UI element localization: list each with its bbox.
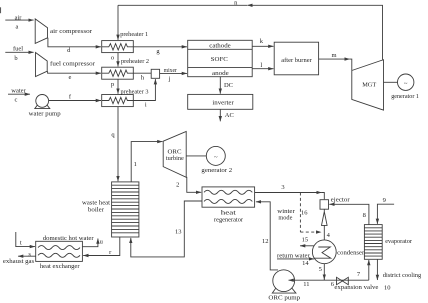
fuel-cell SOFC stack (188, 40, 253, 76)
svg-text:o: o (111, 55, 114, 62)
svg-text:a: a (16, 23, 19, 30)
svg-text:evaporator: evaporator (385, 238, 413, 245)
wire 8: evaporator to ejector (329, 204, 369, 224)
svg-text:cathode: cathode (209, 43, 231, 50)
svg-text:inverter: inverter (212, 100, 234, 107)
wire fuel inlet (5, 51, 33, 53)
svg-text:turbine: turbine (166, 155, 184, 162)
wire air inlet (5, 19, 33, 21)
svg-text:heat exchanger: heat exchanger (40, 263, 81, 270)
svg-text:SOFC: SOFC (211, 56, 228, 63)
wire 12: ORC pump to regenerator (256, 202, 278, 270)
wire n: MGT exhaust to preheater 1 (252, 5, 383, 59)
svg-text:exhaust gas: exhaust gas (3, 258, 35, 265)
svg-text:c: c (15, 97, 18, 104)
heat-exchanger domestic heat exchanger (36, 241, 83, 261)
wire t: cold water inlet (16, 232, 35, 247)
ejector (320, 200, 329, 210)
generator generator 1 (384, 81, 398, 83)
svg-text:1: 1 (134, 161, 137, 168)
compressor air compressor (35, 19, 47, 44)
svg-text:air compressor: air compressor (50, 28, 93, 35)
inverter (188, 94, 253, 109)
svg-text:domestic hot water: domestic hot water (43, 235, 95, 242)
pump ORC pump (272, 286, 296, 293)
svg-text:generator 2: generator 2 (201, 167, 232, 174)
svg-text:3: 3 (281, 184, 284, 191)
heat-exchanger preheater 3 (102, 95, 134, 107)
wire g: preheater 1 to SOFC cathode (133, 46, 187, 48)
svg-text:MGT: MGT (362, 82, 376, 89)
evaporator (364, 225, 382, 260)
wire 1: boiler to ORC turbine (131, 142, 162, 182)
svg-text:p: p (111, 81, 114, 88)
wire l: anode to after burner (252, 68, 273, 70)
svg-text:condenser: condenser (337, 250, 365, 257)
condenser (312, 240, 336, 264)
wire k: cathode to after burner (252, 45, 273, 47)
svg-text:AC: AC (225, 112, 234, 119)
svg-text:anode: anode (212, 70, 229, 77)
valve expansion valve (337, 277, 343, 284)
wire 2: ORC turbine to heat regenerator (187, 177, 202, 192)
svg-text:mixer: mixer (164, 67, 178, 74)
wire m: after burner to MGT (319, 58, 350, 60)
wire 13: regenerator to boiler bottom (131, 201, 202, 257)
svg-text:12: 12 (262, 238, 269, 245)
wire exhaust gas outlet (18, 255, 36, 257)
wire p: preheater 2 to preheater 3 (117, 79, 119, 94)
wire 15: condenser return water out (300, 245, 314, 247)
heat-exchanger preheater 2 (102, 67, 134, 79)
svg-text:10: 10 (384, 285, 391, 292)
svg-text:l: l (260, 62, 262, 69)
svg-text:15: 15 (302, 237, 309, 244)
wire r: boiler to heat exchanger (83, 237, 120, 256)
svg-text:14: 14 (302, 260, 309, 267)
wire n into preheater 1 top (117, 5, 119, 40)
svg-text:after burner: after burner (281, 57, 312, 64)
wire 5: condenser to pump line (323, 264, 325, 280)
wire i: preheater 3 to mixer bottom (133, 79, 155, 100)
mixer (151, 69, 159, 78)
wire water inlet (8, 93, 30, 95)
wire e: fuel compressor to preheater 2 (48, 71, 101, 73)
svg-text:ORC pump: ORC pump (268, 295, 300, 302)
wire 9: district cooling inlet (377, 204, 394, 224)
svg-text:preheater 2: preheater 2 (121, 58, 149, 65)
svg-text:boiler: boiler (88, 207, 105, 214)
wire o: preheater 1 to preheater 2 (117, 53, 119, 67)
pump water pump (35, 104, 50, 108)
svg-text:generator 1: generator 1 (391, 93, 419, 100)
wire 11: suction line into ORC pump (289, 279, 369, 281)
wire 7: valve line up into evaporator (368, 260, 370, 280)
svg-text:return water: return water (277, 252, 311, 259)
svg-text:13: 13 (175, 228, 182, 235)
wire 10: district cooling outlet (376, 259, 378, 280)
wire 4: ejector to condenser (323, 225, 325, 239)
svg-text:b: b (14, 55, 17, 62)
svg-text:~: ~ (404, 80, 408, 87)
svg-text:16: 16 (301, 209, 308, 216)
wire h: preheater 2 to mixer (133, 72, 151, 74)
svg-text:e: e (69, 74, 72, 81)
svg-text:fuel compressor: fuel compressor (50, 61, 96, 68)
generator generator 2 (186, 155, 206, 157)
turbine MGT (352, 60, 384, 110)
svg-text:district cooling: district cooling (383, 272, 422, 279)
svg-text:mode: mode (278, 215, 292, 222)
heat-exchanger preheater 1 (102, 41, 134, 53)
svg-text:j: j (168, 76, 171, 83)
svg-text:i: i (145, 102, 147, 109)
svg-text:9: 9 (383, 197, 386, 204)
svg-text:fuel: fuel (13, 45, 23, 52)
wire q: preheater 3 to waste heat boiler (117, 107, 119, 182)
svg-text:waste heat: waste heat (82, 200, 110, 207)
svg-text:t: t (20, 240, 22, 247)
wire u: domestic hot water outlet (82, 239, 98, 247)
wire DC: SOFC to inverter (219, 77, 221, 94)
svg-text:regenerator: regenerator (214, 217, 244, 224)
wire 16: winter mode dashed bypass (299, 193, 301, 233)
svg-text:DC: DC (224, 82, 233, 89)
svg-text:preheater 3: preheater 3 (121, 88, 149, 95)
burner after burner (274, 42, 318, 75)
boiler waste heat boiler (112, 182, 139, 237)
wire AC output (219, 109, 221, 121)
wire 3: regenerator to ejector (255, 192, 322, 194)
svg-text:water: water (11, 87, 26, 94)
svg-text:11: 11 (303, 281, 309, 288)
svg-text:8: 8 (363, 212, 366, 219)
wire 14: return water into condenser (277, 258, 314, 260)
heat-exchanger heat regenerator (202, 187, 255, 207)
wire f: water pump to preheater 3 (49, 100, 101, 102)
wire j: mixer to SOFC anode (160, 72, 187, 74)
ejector diffuser nozzle (323, 209, 325, 211)
svg-text:ejector: ejector (331, 196, 351, 203)
svg-text:water pump: water pump (29, 111, 61, 118)
turbine ORC turbine (163, 131, 186, 177)
svg-text:m: m (331, 52, 336, 59)
svg-text:5: 5 (319, 266, 322, 273)
wire d: air compressor to preheater 1 (48, 38, 101, 47)
svg-text:~: ~ (214, 154, 218, 161)
svg-text:expansion valve: expansion valve (334, 284, 378, 291)
svg-text:2: 2 (176, 181, 179, 188)
scan artifact tick left edge (0, 7, 2, 13)
svg-text:preheater 1: preheater 1 (120, 31, 148, 38)
compressor fuel compressor (36, 53, 48, 77)
